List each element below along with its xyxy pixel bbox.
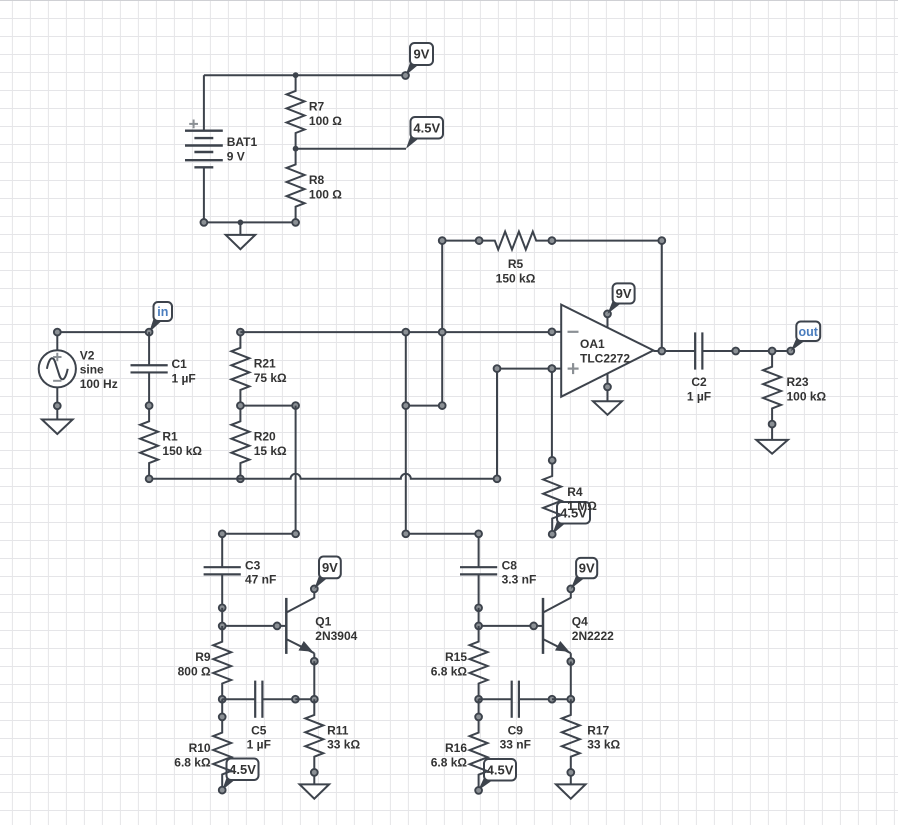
node V2 top pin bbox=[54, 329, 61, 336]
svg-text:33 kΩ: 33 kΩ bbox=[587, 738, 620, 752]
node R8 bottom pin bbox=[292, 219, 299, 226]
svg-text:6.8 kΩ: 6.8 kΩ bbox=[431, 664, 468, 678]
wire base node to Q1 bbox=[222, 625, 277, 627]
node Q1 emitter junction bbox=[311, 696, 318, 703]
svg-text:6.8 kΩ: 6.8 kΩ bbox=[174, 755, 211, 769]
svg-text:1 MΩ: 1 MΩ bbox=[567, 499, 597, 513]
svg-text:Q1: Q1 bbox=[315, 615, 331, 629]
node C8 top pin bbox=[475, 530, 482, 537]
node R17 bottom pin bbox=[567, 769, 574, 776]
label OA1 name bbox=[580, 337, 630, 365]
svg-text:R17: R17 bbox=[587, 723, 609, 737]
node battery negative pin bbox=[201, 219, 208, 226]
wire Q4 emitter down bbox=[570, 662, 572, 700]
wire R21-R20 tap to right bbox=[240, 405, 295, 407]
svg-text:R15: R15 bbox=[445, 650, 467, 664]
wire C5 to emitter node bbox=[295, 698, 314, 700]
resistor R15 bbox=[470, 626, 488, 699]
svg-text:R9: R9 bbox=[195, 650, 211, 664]
svg-text:3.3 nF: 3.3 nF bbox=[502, 573, 537, 587]
node minus bus at Q4 drop bbox=[402, 329, 409, 336]
node C2 right pin bbox=[732, 348, 739, 355]
node R16 top pin bbox=[475, 714, 482, 721]
svg-text:C3: C3 bbox=[245, 558, 261, 572]
resistor R20 bbox=[231, 406, 249, 479]
wire C2 to out bbox=[736, 350, 791, 352]
capacitor C3 bbox=[204, 534, 241, 608]
svg-text:R23: R23 bbox=[787, 375, 809, 389]
svg-text:BAT1: BAT1 bbox=[227, 135, 258, 149]
svg-text:R11: R11 bbox=[327, 723, 349, 737]
wire plus-input link bbox=[497, 368, 552, 370]
wire R9 to R10 bbox=[221, 699, 223, 717]
svg-text:75 kΩ: 75 kΩ bbox=[254, 371, 287, 385]
flag 9V at op-amp bbox=[608, 283, 635, 314]
resistor R16 bbox=[470, 717, 488, 791]
svg-text:150 kΩ: 150 kΩ bbox=[496, 271, 536, 285]
node out flag pin bbox=[787, 348, 794, 355]
source V2 sine bbox=[39, 332, 76, 406]
node feedback corner right bbox=[658, 237, 665, 244]
node Q1 base junction bbox=[219, 623, 226, 630]
svg-text:R21: R21 bbox=[254, 357, 276, 371]
ground at R17 bbox=[556, 772, 586, 798]
junction dot R7 top bbox=[293, 72, 299, 78]
svg-text:4.5V: 4.5V bbox=[487, 762, 514, 777]
svg-text:9 V: 9 V bbox=[227, 149, 245, 163]
wire feedback vertical bbox=[661, 241, 663, 351]
svg-text:C8: C8 bbox=[502, 558, 518, 572]
node op-amp V- pin bbox=[604, 384, 611, 391]
battery plus sign bbox=[189, 120, 198, 129]
node R10 bottom pin bbox=[219, 787, 226, 794]
node C3 bottom pin bbox=[219, 604, 226, 611]
resistor R9 bbox=[213, 626, 231, 699]
svg-text:100 Hz: 100 Hz bbox=[80, 377, 118, 391]
svg-text:9V: 9V bbox=[616, 286, 632, 301]
node 9V flag pin bbox=[402, 72, 409, 79]
node R4 bottom pin bbox=[549, 531, 556, 538]
svg-text:150 kΩ: 150 kΩ bbox=[162, 444, 202, 458]
svg-text:100 Ω: 100 Ω bbox=[309, 187, 342, 201]
svg-text:C1: C1 bbox=[172, 357, 188, 371]
wire V2 to in node bbox=[57, 331, 149, 333]
node op-amp V+ pin bbox=[604, 311, 611, 318]
label Q1 name bbox=[315, 615, 357, 643]
svg-text:9V: 9V bbox=[322, 560, 338, 575]
op-amp OA1 bbox=[552, 305, 654, 397]
node R23 top pin bbox=[769, 348, 776, 355]
capacitor C9 bbox=[479, 681, 552, 718]
wire 9V rail from battery to 9V flag bbox=[204, 74, 406, 76]
svg-text:9V: 9V bbox=[579, 561, 595, 576]
svg-text:sine: sine bbox=[80, 363, 104, 377]
svg-text:R8: R8 bbox=[309, 173, 325, 187]
svg-text:100 Ω: 100 Ω bbox=[309, 114, 342, 128]
node in bbox=[146, 329, 153, 336]
node C9 right pin bbox=[549, 696, 556, 703]
node R9 bottom junction bbox=[219, 696, 226, 703]
svg-text:100 kΩ: 100 kΩ bbox=[787, 389, 827, 403]
node Q4 base pin bbox=[530, 623, 537, 630]
node R5 left pin bbox=[476, 237, 483, 244]
resistor R8 bbox=[287, 149, 305, 223]
node C3 top pin bbox=[219, 530, 226, 537]
node Q1 emitter pin bbox=[311, 658, 318, 665]
resistor R11 bbox=[305, 699, 323, 772]
node R20 bottom pin bbox=[237, 475, 244, 482]
svg-text:R7: R7 bbox=[309, 100, 325, 114]
svg-text:Q4: Q4 bbox=[572, 615, 588, 629]
wire battery positive lead bbox=[203, 75, 205, 131]
wire to R4 bbox=[551, 369, 553, 461]
flag in node bbox=[149, 302, 172, 332]
resistor R4 bbox=[543, 460, 561, 534]
svg-text:33 kΩ: 33 kΩ bbox=[327, 738, 360, 752]
svg-text:R20: R20 bbox=[254, 430, 276, 444]
label Q4 name bbox=[572, 615, 614, 643]
wire op-amp output bbox=[653, 350, 661, 352]
flag 9V at divider top bbox=[406, 43, 434, 76]
svg-text:R4: R4 bbox=[567, 485, 583, 499]
node C5 right pin bbox=[292, 696, 299, 703]
node cross link left bbox=[402, 402, 409, 409]
label V2 value bbox=[80, 348, 118, 391]
node R21-R20 junction bbox=[237, 402, 244, 409]
node R15 bottom junction bbox=[475, 696, 482, 703]
svg-text:R5: R5 bbox=[508, 257, 524, 271]
wire battery negative lead bbox=[203, 167, 205, 222]
node feedback corner left bbox=[439, 237, 446, 244]
label BAT1 value bbox=[227, 135, 258, 163]
svg-text:4.5V: 4.5V bbox=[413, 120, 440, 135]
node R5 right pin bbox=[549, 237, 556, 244]
resistor R23 bbox=[763, 351, 781, 424]
node plus link left bbox=[494, 365, 501, 372]
svg-text:out: out bbox=[798, 325, 818, 339]
node tap corner bbox=[292, 402, 299, 409]
node C1-R1 junction bbox=[146, 402, 153, 409]
svg-text:R10: R10 bbox=[189, 741, 211, 755]
ground at R23 bbox=[756, 424, 788, 454]
flag 4.5V at R4 bbox=[552, 502, 590, 534]
node Q4 emitter pin bbox=[567, 658, 574, 665]
resistor R7 bbox=[287, 75, 305, 149]
svg-text:1 µF: 1 µF bbox=[687, 389, 711, 403]
capacitor C8 bbox=[460, 534, 497, 608]
wire base node to Q4 bbox=[479, 625, 534, 627]
capacitor C5 bbox=[222, 681, 295, 718]
flag 4.5V at R16 bbox=[478, 759, 516, 790]
node R4 top pin bbox=[549, 457, 556, 464]
node C8 bottom pin bbox=[475, 604, 482, 611]
resistor R5 bbox=[479, 232, 552, 250]
wire bottom bus with hops bbox=[149, 474, 497, 479]
svg-text:C9: C9 bbox=[508, 723, 524, 737]
wire Q1 stage top bbox=[222, 533, 295, 535]
node R11 bottom pin bbox=[311, 769, 318, 776]
resistor R17 bbox=[562, 699, 580, 772]
wire minus-input bus bbox=[240, 331, 552, 333]
flag 4.5V at divider tap bbox=[406, 117, 443, 149]
transistor Q1 bbox=[277, 589, 314, 661]
junction dot battery-ground bbox=[238, 220, 244, 226]
junction dot R7-R8 divider tap bbox=[293, 146, 299, 152]
svg-text:2N2222: 2N2222 bbox=[572, 629, 614, 643]
ground at V2 bbox=[42, 406, 73, 434]
node feedback at minus bus bbox=[439, 329, 446, 336]
svg-text:R1: R1 bbox=[162, 430, 178, 444]
node Q4 stage top corner bbox=[402, 530, 409, 537]
wire vertical to Q4 stage bbox=[405, 332, 407, 534]
svg-text:2N3904: 2N3904 bbox=[315, 629, 357, 643]
label R5 value bbox=[496, 257, 536, 285]
svg-text:800 Ω: 800 Ω bbox=[178, 664, 211, 678]
wire plus-input drop bbox=[496, 369, 498, 479]
flag 9V at Q1 bbox=[314, 557, 341, 589]
wire R5 right to feedback corner bbox=[552, 240, 662, 242]
svg-text:OA1: OA1 bbox=[580, 337, 605, 351]
node R16 bottom pin bbox=[475, 787, 482, 794]
node R23 bottom pin bbox=[769, 421, 776, 428]
svg-text:6.8 kΩ: 6.8 kΩ bbox=[431, 755, 468, 769]
wire Q1 emitter down bbox=[313, 661, 315, 699]
svg-text:1 µF: 1 µF bbox=[247, 738, 271, 752]
wire battery bottom to R8 bbox=[204, 221, 296, 223]
svg-text:4.5V: 4.5V bbox=[229, 762, 256, 777]
transistor Q4 bbox=[534, 589, 571, 662]
node V2 bottom pin bbox=[54, 402, 61, 409]
flag 9V at Q4 bbox=[571, 558, 597, 589]
svg-text:R16: R16 bbox=[445, 741, 467, 755]
node cross link right bbox=[439, 402, 446, 409]
svg-text:15 kΩ: 15 kΩ bbox=[254, 444, 287, 458]
label C5 value bbox=[247, 723, 271, 751]
svg-text:TLC2272: TLC2272 bbox=[580, 351, 630, 365]
resistor R21 bbox=[231, 332, 249, 406]
label C2 value bbox=[687, 375, 711, 403]
node bottom bus left pin bbox=[146, 475, 153, 482]
node Q4 emitter junction bbox=[567, 696, 574, 703]
svg-text:1 µF: 1 µF bbox=[172, 371, 196, 385]
svg-text:47 nF: 47 nF bbox=[245, 573, 276, 587]
wire C3 to base node bbox=[221, 608, 223, 626]
flag 4.5V at R10 bbox=[222, 759, 258, 791]
node Q1 stage top corner bbox=[292, 530, 299, 537]
node Q4 base junction bbox=[475, 623, 482, 630]
label C9 value bbox=[500, 723, 531, 751]
resistor R10 bbox=[213, 717, 231, 790]
svg-text:C5: C5 bbox=[251, 723, 267, 737]
wire cross link bbox=[406, 405, 442, 407]
svg-text:33 nF: 33 nF bbox=[500, 738, 531, 752]
flag out node bbox=[791, 322, 820, 352]
ground at battery bbox=[226, 222, 256, 249]
node op-amp minus pin bbox=[549, 328, 556, 335]
svg-text:in: in bbox=[157, 305, 168, 319]
wire feedback drop bbox=[441, 241, 443, 406]
ground at R11 bbox=[300, 772, 330, 798]
node Q1 collector pin bbox=[311, 586, 318, 593]
node op-amp plus pin bbox=[549, 365, 556, 372]
capacitor C2 bbox=[662, 332, 736, 369]
wire C9 to emitter node bbox=[552, 698, 571, 700]
node R10 top pin bbox=[219, 714, 226, 721]
node plus pin bbox=[549, 365, 556, 372]
svg-text:9V: 9V bbox=[414, 47, 430, 62]
node R21 top pin bbox=[237, 329, 244, 336]
node Q4 collector pin bbox=[567, 586, 574, 593]
wire 4.5V from divider bbox=[296, 148, 406, 150]
wire Q4 stage top bbox=[406, 533, 479, 535]
node Q1 base pin bbox=[274, 623, 281, 630]
battery BAT1 bbox=[185, 131, 223, 168]
wire R5 left bbox=[442, 240, 479, 242]
node op-amp output bbox=[658, 348, 665, 355]
wire vertical to Q1 stage bbox=[295, 406, 297, 534]
ground at op-amp bbox=[593, 387, 622, 415]
resistor R1 bbox=[140, 406, 158, 479]
capacitor C1 bbox=[131, 332, 168, 406]
svg-text:V2: V2 bbox=[80, 348, 95, 362]
wire C8 to base node bbox=[478, 608, 480, 626]
svg-text:C2: C2 bbox=[691, 375, 707, 389]
wire R15 to R16 bbox=[478, 699, 480, 717]
node bottom bus right end bbox=[494, 475, 501, 482]
